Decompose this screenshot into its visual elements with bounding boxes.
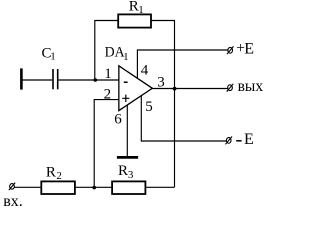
svg-text:E: E [244, 40, 254, 57]
svg-text:R: R [46, 165, 56, 181]
svg-text:DA: DA [105, 45, 125, 61]
svg-text:1: 1 [50, 51, 56, 63]
svg-text:3: 3 [128, 169, 134, 181]
svg-text:1: 1 [138, 4, 144, 16]
svg-text:1: 1 [123, 51, 129, 63]
svg-text:4: 4 [141, 63, 149, 79]
svg-text:3: 3 [157, 75, 165, 91]
svg-text:1: 1 [104, 66, 112, 82]
svg-text:2: 2 [104, 86, 112, 102]
svg-text:вых: вых [238, 78, 263, 95]
svg-text:R: R [118, 163, 128, 179]
svg-text:5: 5 [145, 99, 153, 115]
svg-text:2: 2 [56, 170, 62, 182]
svg-text:вх.: вх. [3, 193, 23, 210]
svg-text:E: E [244, 131, 254, 148]
svg-text:6: 6 [114, 112, 122, 128]
